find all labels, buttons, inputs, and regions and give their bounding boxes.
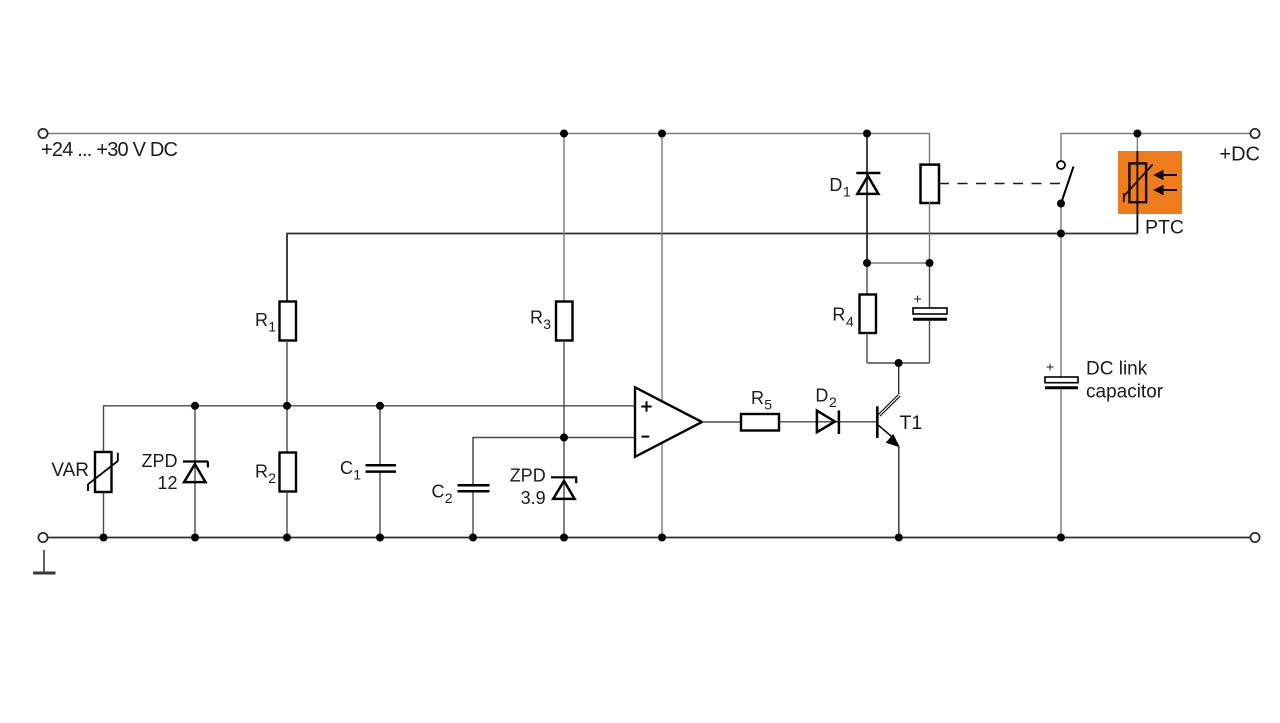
svg-text:PTC: PTC — [1145, 217, 1184, 239]
wire mid rail — [104, 406, 636, 452]
wire top rail left segment — [47, 133, 930, 135]
wire minus input line — [473, 438, 635, 486]
svg-text:12: 12 — [157, 473, 177, 493]
svg-text:+: + — [1046, 359, 1054, 375]
svg-text:+: + — [914, 291, 922, 307]
svg-text:R: R — [751, 388, 764, 408]
junction dots D1 coil link — [863, 259, 934, 267]
relay coil K1 — [921, 134, 940, 264]
resistor R1 — [280, 302, 297, 406]
switch S1 — [1057, 161, 1074, 204]
svg-text:T1: T1 — [900, 412, 923, 434]
wire rail2 horizontal — [287, 234, 1137, 302]
dashed relay actuation link — [939, 183, 1064, 185]
svg-text:+24 ... +30 V DC: +24 ... +30 V DC — [41, 139, 178, 161]
svg-text:4: 4 — [846, 313, 854, 329]
svg-text:3.9: 3.9 — [521, 488, 546, 508]
wire top rail right segment — [1061, 134, 1251, 162]
svg-text:ZPD: ZPD — [510, 466, 546, 486]
diode D2 — [817, 410, 839, 434]
capacitor C2 — [458, 485, 490, 537]
svg-text:1: 1 — [268, 319, 276, 335]
zener diode ZPD 12 — [183, 405, 208, 538]
svg-text:VAR: VAR — [51, 460, 89, 481]
svg-text:ZPD: ZPD — [142, 451, 178, 471]
svg-text:2: 2 — [268, 470, 276, 486]
svg-text:D: D — [815, 386, 828, 406]
varistor VAR — [88, 452, 118, 538]
svg-text:R: R — [832, 305, 845, 325]
wire switch to DC link — [1060, 204, 1062, 378]
wire bottom rail — [48, 537, 1251, 539]
junction dot minus line — [560, 434, 568, 442]
svg-text:1: 1 — [353, 466, 361, 482]
svg-text:2: 2 — [445, 490, 453, 506]
capacitor C1 — [366, 405, 397, 538]
svg-text:+DC: +DC — [1219, 144, 1260, 166]
svg-text:C: C — [432, 482, 445, 502]
resistor R4 — [860, 263, 877, 363]
wire op-amp output — [702, 421, 741, 423]
node +24V terminal — [38, 129, 47, 138]
resistor R2 — [280, 405, 297, 538]
svg-text:R: R — [530, 307, 543, 327]
PTC thermistor — [1118, 134, 1182, 234]
zener diode ZPD 3.9 — [551, 477, 577, 499]
transistor T1 — [877, 363, 899, 538]
node GND terminal left — [38, 533, 47, 542]
ground — [33, 550, 56, 573]
node terminal bottom right — [1250, 533, 1259, 542]
svg-text:3: 3 — [543, 316, 551, 332]
DC link capacitor — [1045, 377, 1078, 538]
wire D1-coil bottom link — [867, 262, 930, 264]
diode D1 — [856, 134, 880, 264]
junction dot rail2 — [1057, 230, 1065, 238]
svg-text:DC link: DC link — [1086, 359, 1148, 380]
svg-text:R: R — [255, 461, 268, 481]
svg-text:1: 1 — [843, 184, 851, 200]
svg-text:C: C — [340, 458, 353, 478]
resistor R5 — [741, 414, 779, 431]
junction dots mid rail — [191, 402, 384, 410]
junction dot switch — [1057, 200, 1065, 208]
junction dots bottom rail — [100, 534, 1066, 542]
svg-text:D: D — [829, 175, 842, 195]
wire R4-cap bottom link — [867, 362, 930, 364]
svg-text:R: R — [255, 310, 268, 330]
wire R5 to D2 — [779, 421, 877, 423]
wire op-amp power — [661, 134, 663, 538]
svg-text:2: 2 — [829, 394, 837, 410]
electrolytic capacitor C3 — [913, 263, 947, 363]
svg-text:5: 5 — [764, 397, 772, 413]
node +DC terminal — [1250, 129, 1259, 138]
svg-text:capacitor: capacitor — [1086, 382, 1164, 403]
junction dot T1 collector — [895, 359, 903, 367]
resistor R3 — [556, 134, 573, 538]
junction dots top rail — [560, 130, 1141, 138]
op-amp U1 — [635, 387, 702, 457]
